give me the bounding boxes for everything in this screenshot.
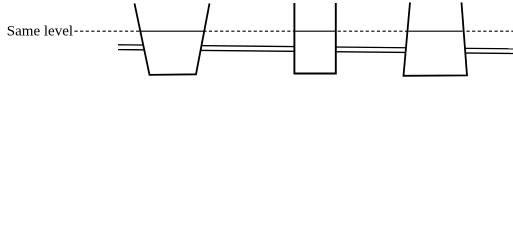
wire: connecting tube lower line <box>118 50 513 54</box>
vessel 2 water line <box>295 30 335 32</box>
wire: connecting tube upper line <box>118 45 513 49</box>
dashed same-level reference line <box>75 30 513 32</box>
svg-text:Same level: Same level <box>7 23 73 39</box>
vessel 2 outline (narrow rectangle) <box>294 3 335 74</box>
vessel 1 interior mask <box>135 3 210 75</box>
vessel 1 outline (trapezoid, wide top) <box>135 3 210 75</box>
vessel 3 interior mask <box>404 2 468 75</box>
vessel 3 water line <box>409 30 463 32</box>
vessel 1 water line <box>141 30 205 32</box>
vessel 2 interior mask <box>294 3 337 75</box>
vessel 3 outline (slightly wider at bottom) <box>404 2 468 75</box>
